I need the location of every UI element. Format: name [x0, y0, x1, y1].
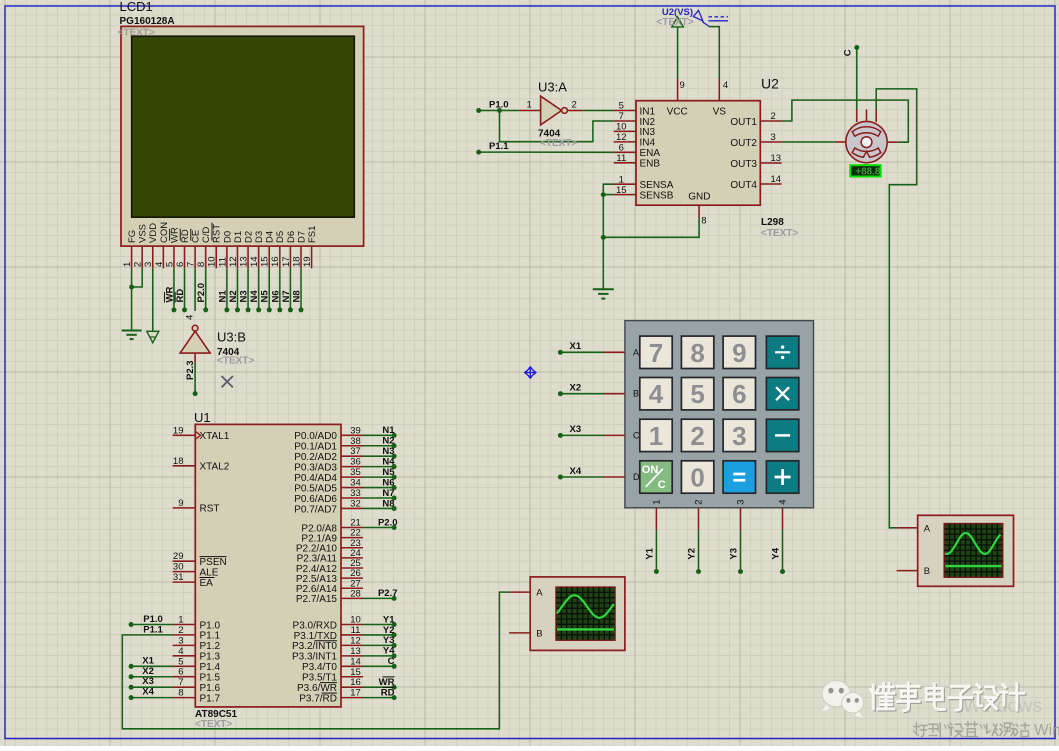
svg-text:WR: WR [379, 677, 395, 688]
svg-text:7: 7 [186, 262, 197, 267]
svg-text:3: 3 [732, 421, 746, 451]
svg-text:P1.7: P1.7 [200, 693, 221, 704]
svg-text:30: 30 [173, 562, 184, 573]
svg-text:P0.7/AD7: P0.7/AD7 [294, 504, 337, 515]
svg-text:P1.1: P1.1 [200, 631, 221, 642]
svg-text:<TEXT>: <TEXT> [217, 356, 254, 367]
svg-text:29: 29 [173, 551, 184, 562]
svg-text:1: 1 [527, 99, 532, 110]
svg-text:LCD1: LCD1 [120, 0, 153, 14]
svg-text:7: 7 [178, 677, 183, 688]
svg-text:P1.1: P1.1 [489, 141, 509, 152]
svg-text:OUT4: OUT4 [730, 180, 757, 191]
svg-text:11: 11 [351, 625, 361, 636]
svg-text:19: 19 [173, 425, 184, 436]
svg-text:4: 4 [723, 80, 728, 91]
svg-text:37: 37 [350, 446, 361, 457]
svg-text:36: 36 [350, 457, 361, 468]
svg-text:ON: ON [642, 464, 659, 476]
svg-text:P0.4/AD4: P0.4/AD4 [294, 473, 337, 484]
svg-text:9: 9 [732, 338, 746, 368]
svg-text:P2.7/A15: P2.7/A15 [296, 594, 338, 605]
svg-text:P3.1/TXD: P3.1/TXD [294, 631, 337, 642]
svg-text:34: 34 [350, 478, 361, 489]
svg-text:P1.4: P1.4 [200, 662, 221, 673]
svg-text:+88.8: +88.8 [856, 166, 881, 177]
svg-text:33: 33 [350, 488, 361, 499]
svg-text:15: 15 [350, 667, 361, 678]
svg-text:XTAL2: XTAL2 [200, 462, 230, 473]
svg-text:P3.7/RD: P3.7/RD [299, 693, 337, 704]
svg-text:X2: X2 [570, 383, 582, 394]
svg-text:D1: D1 [233, 231, 244, 243]
svg-text:A: A [633, 347, 639, 357]
svg-text:ENB: ENB [640, 159, 661, 170]
svg-text:4: 4 [185, 315, 196, 320]
svg-text:12: 12 [350, 635, 361, 646]
svg-text:14: 14 [249, 256, 260, 267]
svg-text:1: 1 [122, 262, 133, 267]
svg-text:XTAL1: XTAL1 [200, 431, 230, 442]
svg-text:P2.3: P2.3 [185, 360, 196, 380]
svg-text:P3.6/WR: P3.6/WR [297, 683, 337, 694]
svg-text:RD: RD [381, 687, 395, 698]
svg-text:N1: N1 [382, 425, 395, 436]
svg-text:Y2: Y2 [687, 548, 698, 560]
svg-text:Win: Win [1034, 722, 1059, 739]
svg-text:3: 3 [178, 635, 183, 646]
svg-text:PSEN: PSEN [200, 557, 227, 568]
svg-text:P3.5/T1: P3.5/T1 [302, 673, 337, 684]
svg-text:32: 32 [350, 498, 361, 509]
svg-text:D6: D6 [286, 231, 297, 243]
svg-text:ENA: ENA [640, 148, 661, 159]
svg-text:U2: U2 [761, 76, 779, 92]
svg-text:D: D [633, 472, 640, 482]
svg-text:CON: CON [159, 222, 170, 243]
svg-text:X4: X4 [570, 466, 582, 477]
svg-text:WR: WR [169, 227, 180, 243]
svg-text:10: 10 [207, 256, 218, 267]
svg-text:0: 0 [690, 463, 704, 493]
svg-text:D3: D3 [254, 231, 265, 243]
svg-text:P0.6/AD6: P0.6/AD6 [294, 494, 337, 505]
svg-text:P1.1: P1.1 [143, 624, 163, 635]
svg-text:D7: D7 [296, 231, 307, 243]
svg-text:RST: RST [212, 224, 223, 243]
svg-text:2: 2 [690, 421, 704, 451]
svg-text:N3: N3 [382, 446, 394, 457]
svg-text:16: 16 [270, 256, 281, 267]
svg-text:RD: RD [180, 229, 191, 243]
svg-text:IN2: IN2 [640, 117, 656, 128]
svg-text:10: 10 [350, 615, 361, 626]
svg-text:B: B [633, 389, 639, 399]
svg-text:7: 7 [649, 338, 663, 368]
svg-text:P0.2/AD2: P0.2/AD2 [294, 452, 337, 463]
svg-text:12: 12 [228, 256, 239, 267]
svg-text:1: 1 [178, 615, 183, 626]
svg-text:35: 35 [350, 467, 361, 478]
svg-text:15: 15 [260, 256, 271, 267]
svg-text:8: 8 [196, 262, 207, 267]
svg-text:<TEXT>: <TEXT> [540, 138, 577, 149]
svg-text:9: 9 [680, 80, 685, 91]
svg-text:N2: N2 [228, 290, 239, 302]
svg-text:11: 11 [616, 153, 626, 164]
svg-text:P0.3/AD3: P0.3/AD3 [294, 462, 337, 473]
svg-text:5: 5 [690, 379, 704, 409]
svg-text:13: 13 [771, 153, 782, 164]
svg-text:16: 16 [350, 677, 361, 688]
svg-text:VS: VS [713, 107, 727, 118]
svg-text:N4: N4 [382, 456, 395, 467]
svg-text:4: 4 [778, 500, 789, 505]
svg-text:P1.5: P1.5 [200, 673, 221, 684]
svg-text:2: 2 [694, 500, 705, 505]
svg-text:8: 8 [178, 688, 183, 699]
svg-text:OUT1: OUT1 [730, 117, 757, 128]
svg-text:18: 18 [173, 456, 184, 467]
svg-text:3: 3 [143, 262, 154, 267]
svg-text:5: 5 [619, 101, 624, 112]
svg-text:5: 5 [178, 656, 183, 667]
svg-text:Y4: Y4 [383, 646, 395, 657]
svg-text:EA: EA [200, 578, 214, 589]
svg-text:X3: X3 [142, 676, 154, 687]
svg-text:6: 6 [175, 262, 186, 267]
svg-text:15: 15 [616, 185, 627, 196]
svg-text:N1: N1 [217, 290, 228, 303]
svg-text:39: 39 [350, 425, 361, 436]
svg-text:X3: X3 [570, 424, 582, 435]
svg-text:2: 2 [572, 99, 577, 110]
svg-text:Y1: Y1 [383, 614, 395, 625]
svg-text:VCC: VCC [667, 107, 688, 118]
svg-text:X1: X1 [142, 655, 154, 666]
svg-text:RST: RST [200, 504, 220, 515]
svg-text:N5: N5 [260, 290, 271, 303]
svg-text:P1.6: P1.6 [200, 683, 221, 694]
svg-text:3: 3 [771, 132, 776, 143]
svg-text:38: 38 [350, 436, 361, 447]
svg-text:P1.0: P1.0 [489, 99, 509, 110]
svg-text:C/D: C/D [201, 227, 212, 244]
svg-text:A: A [536, 588, 543, 599]
svg-text:5: 5 [164, 262, 175, 267]
svg-text:N8: N8 [292, 290, 303, 302]
svg-text:B: B [536, 628, 542, 639]
svg-text:P1.0: P1.0 [200, 620, 221, 631]
svg-text:FS1: FS1 [307, 226, 318, 243]
svg-text:X2: X2 [142, 666, 154, 677]
svg-text:Y3: Y3 [729, 548, 740, 560]
svg-text:Y4: Y4 [771, 547, 782, 559]
svg-text:P1.0: P1.0 [143, 614, 163, 625]
svg-text:8: 8 [701, 216, 706, 227]
svg-text:17: 17 [350, 688, 361, 699]
svg-text:FG: FG [127, 230, 138, 243]
svg-text:P3.3/INT1: P3.3/INT1 [292, 652, 337, 663]
svg-text:P2.0: P2.0 [196, 283, 207, 303]
svg-text:D2: D2 [243, 231, 254, 243]
svg-text:<TEXT>: <TEXT> [656, 17, 693, 28]
svg-text:18: 18 [291, 256, 302, 267]
svg-text:9: 9 [178, 498, 183, 509]
svg-text:6: 6 [732, 379, 746, 409]
svg-text:N4: N4 [249, 290, 260, 303]
svg-text:13: 13 [350, 646, 361, 657]
svg-text:D0: D0 [222, 231, 233, 243]
svg-text:P2.0: P2.0 [378, 517, 398, 528]
svg-text:1: 1 [652, 500, 663, 505]
svg-text:U3:B: U3:B [217, 330, 246, 345]
svg-text:P1.3: P1.3 [200, 652, 221, 663]
svg-text:P0.5/AD5: P0.5/AD5 [294, 483, 337, 494]
svg-text:IN4: IN4 [640, 138, 656, 149]
svg-text:31: 31 [173, 572, 184, 583]
svg-text:SENSB: SENSB [640, 190, 674, 201]
svg-text:6: 6 [178, 667, 183, 678]
svg-text:B: B [924, 566, 930, 577]
svg-text:12: 12 [616, 132, 627, 143]
svg-text:VDD: VDD [148, 223, 159, 243]
svg-text:17: 17 [281, 256, 292, 267]
svg-text:RD: RD [175, 289, 186, 303]
svg-text:P3.0/RXD: P3.0/RXD [293, 620, 337, 631]
svg-text:2: 2 [133, 262, 144, 267]
svg-text:OUT3: OUT3 [730, 159, 757, 170]
svg-text:A: A [924, 523, 931, 534]
svg-text:C: C [388, 656, 395, 667]
svg-text:Y3: Y3 [383, 635, 395, 646]
svg-text:U3:A: U3:A [538, 80, 567, 95]
svg-text:<TEXT>: <TEXT> [761, 228, 798, 239]
svg-text:PG160128A: PG160128A [120, 16, 175, 27]
svg-text:28: 28 [350, 588, 361, 599]
svg-text:1: 1 [619, 174, 624, 185]
svg-text:L298: L298 [761, 217, 784, 228]
svg-text:P0.1/AD1: P0.1/AD1 [294, 442, 337, 453]
svg-text:2: 2 [771, 111, 776, 122]
svg-text:<TEXT>: <TEXT> [118, 27, 155, 38]
svg-text:<TEXT>: <TEXT> [195, 719, 232, 730]
svg-text:13: 13 [238, 256, 249, 267]
svg-text:4: 4 [649, 379, 664, 409]
svg-text:N6: N6 [382, 477, 394, 488]
svg-text:D5: D5 [275, 231, 286, 243]
svg-text:X4: X4 [142, 687, 154, 698]
svg-text:P1.2: P1.2 [200, 641, 221, 652]
svg-text:C: C [633, 430, 640, 440]
svg-text:X1: X1 [570, 341, 582, 352]
svg-text:CE: CE [191, 230, 202, 243]
svg-text:11: 11 [217, 257, 228, 267]
svg-text:Y1: Y1 [645, 547, 656, 559]
svg-text:P3.4/T0: P3.4/T0 [302, 662, 337, 673]
svg-text:1: 1 [649, 421, 663, 451]
svg-text:ALE: ALE [200, 567, 219, 578]
svg-text:N7: N7 [382, 488, 394, 499]
svg-text:N7: N7 [281, 290, 292, 302]
svg-text:C: C [842, 49, 853, 56]
svg-text:3: 3 [736, 500, 747, 505]
svg-text:U1: U1 [194, 410, 211, 425]
svg-text:Y2: Y2 [383, 625, 395, 636]
svg-text:P3.2/INT0: P3.2/INT0 [292, 641, 337, 652]
svg-text:N6: N6 [270, 290, 281, 302]
svg-text:19: 19 [302, 256, 313, 267]
svg-text:D4: D4 [265, 231, 276, 243]
svg-text:C: C [658, 479, 666, 491]
svg-text:IN3: IN3 [640, 127, 656, 138]
svg-text:6: 6 [619, 143, 624, 154]
svg-text:8: 8 [690, 338, 704, 368]
svg-text:N2: N2 [382, 436, 394, 447]
svg-text:7: 7 [619, 111, 624, 122]
svg-text:4: 4 [154, 262, 165, 267]
svg-text:IN1: IN1 [640, 106, 656, 117]
svg-text:4: 4 [178, 646, 183, 657]
svg-text:VSS: VSS [138, 224, 149, 243]
svg-text:N5: N5 [382, 467, 395, 478]
svg-text:OUT2: OUT2 [730, 138, 757, 149]
svg-text:WR: WR [164, 287, 175, 303]
svg-text:14: 14 [350, 656, 361, 667]
svg-text:P0.0/AD0: P0.0/AD0 [294, 431, 337, 442]
svg-text:10: 10 [616, 122, 627, 133]
svg-text:14: 14 [771, 174, 782, 185]
svg-text:SENSA: SENSA [640, 180, 674, 191]
svg-text:N8: N8 [382, 498, 394, 509]
svg-text:2: 2 [178, 625, 183, 636]
svg-text:N3: N3 [239, 290, 250, 302]
svg-text:GND: GND [688, 191, 710, 202]
svg-text:P2.7: P2.7 [378, 588, 398, 599]
